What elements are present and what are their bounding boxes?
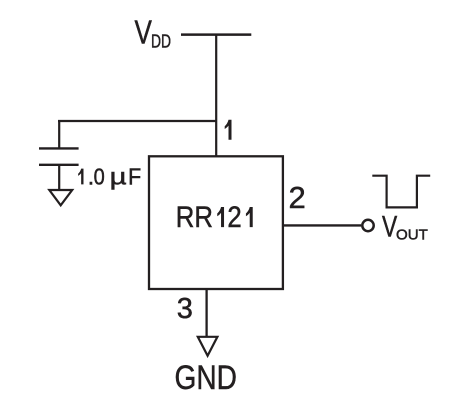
- wire VDD bar to pin 1: [215, 35, 217, 157]
- wire junction to capacitor branch: [58, 120, 216, 122]
- label VDD: [135, 15, 172, 52]
- pin 3 label: [177, 293, 193, 325]
- wire capacitor top lead: [58, 121, 60, 148]
- label VOUT: [382, 209, 428, 243]
- wire capacitor bottom lead: [58, 165, 60, 190]
- value label 1.0uF: [78, 163, 141, 190]
- ground arrow at pin 3: [198, 337, 218, 356]
- ground symbol below capacitor: [49, 190, 72, 205]
- pin 1 label: [225, 120, 232, 140]
- label RR121: [176, 201, 253, 234]
- svg-text:2: 2: [227, 201, 241, 234]
- svg-text:F: F: [128, 164, 141, 190]
- wire pin 2 to output node: [283, 224, 361, 226]
- waveform pulse symbol: [372, 176, 430, 208]
- wire pin 3 to ground arrow: [205, 289, 207, 337]
- svg-text:µ: µ: [110, 164, 127, 190]
- node VOUT open circle: [362, 220, 373, 231]
- svg-text:RR: RR: [176, 201, 213, 234]
- svg-text:3: 3: [177, 293, 193, 325]
- power rail VDD bar: [181, 33, 251, 36]
- svg-text:V: V: [135, 15, 153, 52]
- svg-text:DD: DD: [151, 31, 171, 51]
- svg-text:2: 2: [289, 180, 306, 215]
- svg-text:GND: GND: [175, 358, 237, 396]
- label GND: [175, 358, 237, 396]
- capacitor C1 plates: [39, 148, 79, 164]
- pin 2 label: [289, 180, 306, 215]
- IC U1 RR121 box: [149, 156, 283, 289]
- svg-text:OUT: OUT: [396, 227, 428, 244]
- svg-text:0: 0: [94, 163, 105, 190]
